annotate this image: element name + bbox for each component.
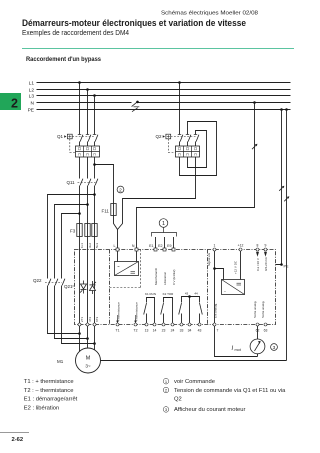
svg-text:63: 63 <box>264 329 268 333</box>
svg-text:Thermistance: Thermistance <box>134 302 138 321</box>
svg-text:24: 24 <box>171 329 175 333</box>
svg-text:E1: E1 <box>149 244 153 248</box>
svg-text:2T1: 2T1 <box>80 316 84 322</box>
svg-text:2: 2 <box>165 388 168 393</box>
svg-text:Sortie analog.: Sortie analog. <box>261 301 265 318</box>
svg-text:E9: E9 <box>167 244 171 248</box>
svg-text:2-62: 2-62 <box>12 437 24 443</box>
svg-text:Afficheur du courant moteur: Afficheur du courant moteur <box>174 407 245 413</box>
svg-text:Thermistance: Thermistance <box>116 302 120 321</box>
svg-text:23: 23 <box>162 329 166 333</box>
svg-text:~: ~ <box>224 289 227 294</box>
svg-text:Démarreurs-moteur électronique: Démarreurs-moteur électroniques et varia… <box>22 18 246 28</box>
svg-text:PE: PE <box>28 107 34 113</box>
svg-text:F11: F11 <box>102 209 110 214</box>
svg-text:3: 3 <box>273 345 276 351</box>
svg-text:34: 34 <box>188 329 192 333</box>
svg-text:14: 14 <box>153 329 157 333</box>
svg-text:2: 2 <box>11 97 18 111</box>
svg-text:Q1: Q1 <box>57 134 64 139</box>
svg-text:K2 TOR: K2 TOR <box>163 292 175 296</box>
svg-text:mot: mot <box>235 348 242 352</box>
svg-text:4T2: 4T2 <box>88 316 92 322</box>
svg-text:E/s analog.: E/s analog. <box>214 303 218 318</box>
svg-text:1: 1 <box>165 379 168 384</box>
svg-text:0 V (E1/E2): 0 V (E1/E2) <box>172 269 176 285</box>
svg-text:13: 13 <box>145 329 149 333</box>
svg-text:Raccordement d'un bypass: Raccordement d'un bypass <box>26 56 101 63</box>
svg-text:44: 44 <box>194 291 198 295</box>
svg-text:+12 V DC: +12 V DC <box>233 260 237 274</box>
svg-text:Q21: Q21 <box>64 284 73 289</box>
svg-text:L3: L3 <box>29 93 35 99</box>
svg-text:Q2: Q2 <box>174 397 182 403</box>
svg-text:43: 43 <box>185 291 189 295</box>
svg-text:F3: F3 <box>70 229 76 234</box>
svg-text:Schémas électriques Moeller 02: Schémas électriques Moeller 02/08 <box>161 11 258 17</box>
svg-text:T2 : – thermistance: T2 : – thermistance <box>24 388 74 394</box>
svg-text:3: 3 <box>165 407 168 412</box>
svg-text:3~: 3~ <box>85 364 91 369</box>
svg-text:7: 7 <box>217 329 219 333</box>
svg-text:Marche/arrêt: Marche/arrêt <box>154 268 158 285</box>
svg-text:33: 33 <box>180 329 184 333</box>
svg-text:E1 : démarrage/arrêt: E1 : démarrage/arrêt <box>24 397 78 403</box>
svg-text:1L1: 1L1 <box>80 243 84 248</box>
svg-text:Q22: Q22 <box>33 278 42 283</box>
svg-text:+12: +12 <box>238 244 244 248</box>
svg-text:I: I <box>232 346 234 352</box>
svg-text:voir Commande: voir Commande <box>174 379 215 385</box>
svg-text:43: 43 <box>198 329 202 333</box>
svg-text:L: L <box>114 244 116 248</box>
svg-text:Q11: Q11 <box>67 180 76 185</box>
svg-text:Libération: Libération <box>163 271 167 285</box>
svg-text:5L3: 5L3 <box>95 243 99 248</box>
svg-text:Tension de commande via Q1 et: Tension de commande via Q1 et F11 ou via <box>174 388 286 394</box>
svg-text:Q2: Q2 <box>156 134 163 139</box>
svg-text:T1: T1 <box>116 329 120 333</box>
svg-text:L2: L2 <box>29 87 35 93</box>
svg-text:M1: M1 <box>57 359 64 364</box>
svg-text:E2 : libération: E2 : libération <box>24 405 59 411</box>
svg-text:M: M <box>86 356 91 362</box>
svg-text:1: 1 <box>214 244 216 248</box>
svg-text:2: 2 <box>119 187 122 193</box>
svg-text:6T3: 6T3 <box>95 316 99 322</box>
svg-text:E2: E2 <box>158 244 162 248</box>
svg-text:K1 RUN: K1 RUN <box>145 292 156 296</box>
svg-text:0 à ±10 V: 0 à ±10 V <box>256 258 260 271</box>
svg-text:N: N <box>31 100 35 106</box>
svg-text:8: 8 <box>257 244 259 248</box>
svg-text:Signal e/s: Signal e/s <box>207 252 211 266</box>
svg-text:Sortie analog.: Sortie analog. <box>253 301 257 318</box>
svg-text:~: ~ <box>117 264 120 269</box>
svg-text:3L2: 3L2 <box>88 243 92 248</box>
svg-text:T2: T2 <box>134 329 138 333</box>
svg-text:T1 : + thermistance: T1 : + thermistance <box>24 379 74 385</box>
svg-text:1: 1 <box>162 221 165 227</box>
svg-text:9: 9 <box>265 244 267 248</box>
svg-text:Exemples de raccordement des D: Exemples de raccordement des DM4 <box>22 28 129 37</box>
svg-text:L1: L1 <box>29 80 35 86</box>
svg-text:N: N <box>132 244 135 248</box>
svg-text:0/4-20 mA: 0/4-20 mA <box>264 257 268 271</box>
